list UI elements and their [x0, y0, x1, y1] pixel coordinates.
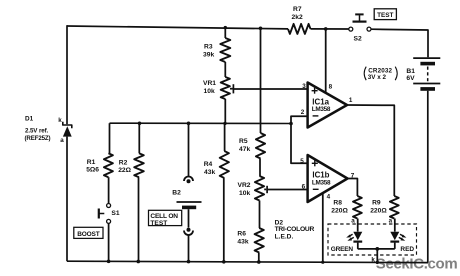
- wire R9 to red LED: [394, 219, 396, 232]
- node junction top rail / R3 column: [224, 26, 227, 29]
- svg-text:22Ω: 22Ω: [118, 167, 131, 174]
- resistor R8 220Ω body: [353, 196, 362, 219]
- svg-text:k: k: [371, 256, 375, 263]
- svg-text:TRI-COLOUR: TRI-COLOUR: [275, 226, 315, 233]
- wire R8 to green LED: [357, 219, 359, 232]
- svg-text:39k: 39k: [203, 52, 214, 59]
- svg-text:6V: 6V: [406, 75, 415, 82]
- node junction bottom rail / R6: [257, 260, 261, 264]
- svg-text:2.5V ref.: 2.5V ref.: [25, 128, 49, 135]
- battery clip top of B2: [184, 177, 193, 182]
- wire S1 to bottom rail: [108, 224, 110, 262]
- svg-text:R9: R9: [372, 199, 381, 206]
- wire IC1b pin4 to bottom rail: [322, 194, 324, 263]
- svg-text:4: 4: [327, 193, 331, 200]
- resistor R7 2k2 body: [288, 24, 311, 34]
- label CELL ON TEST box: [149, 210, 182, 225]
- svg-text:(REF25Z): (REF25Z): [25, 135, 51, 142]
- LED D2 green element: [353, 232, 362, 240]
- svg-text:R5: R5: [239, 138, 248, 145]
- svg-text:a: a: [60, 137, 64, 144]
- node junction bottom rail / pin4: [321, 261, 324, 264]
- svg-text:R7: R7: [293, 6, 302, 13]
- trimpot VR2 10k body: [255, 176, 264, 201]
- svg-text:TEST: TEST: [150, 220, 167, 227]
- battery clip bottom of B2: [187, 228, 191, 232]
- svg-text:LM358: LM358: [312, 179, 331, 186]
- svg-text:1: 1: [349, 97, 353, 104]
- wire right rail B1 bottom to bottom rail: [427, 91, 429, 263]
- svg-text:LM358: LM358: [312, 106, 331, 113]
- diode D1 2.5V reference REF25Z: [63, 122, 72, 128]
- svg-text:S2: S2: [354, 35, 362, 42]
- svg-text:10k: 10k: [204, 88, 215, 95]
- wire IC1a output pin1: [347, 105, 394, 196]
- wire mid-rail node to IC1a pin2 and IC1b pin5: [291, 116, 307, 163]
- svg-text:VR2: VR2: [238, 182, 251, 189]
- wire R2 to bottom rail: [138, 177, 140, 261]
- battery B1 6V (2x CR2032): [413, 57, 440, 59]
- light arrows red LED: [400, 234, 404, 236]
- wire mid rail to B2 clip: [188, 123, 190, 177]
- node junction mid rail / B2: [187, 122, 191, 126]
- svg-text:10k: 10k: [239, 190, 250, 197]
- svg-text:2: 2: [301, 109, 305, 116]
- battery B2 cell on test: [177, 201, 202, 203]
- svg-text:8: 8: [329, 84, 333, 91]
- svg-text:5Ω6: 5Ω6: [86, 167, 99, 174]
- wire mid rail (reference node): [110, 122, 292, 124]
- LED D2 red element: [390, 232, 399, 240]
- svg-text:L.E.D.: L.E.D.: [275, 233, 294, 240]
- node junction LED cathodes: [375, 247, 379, 251]
- light arrows green LED: [349, 234, 353, 236]
- node junction bottom rail / S1: [107, 260, 111, 264]
- svg-text:2k2: 2k2: [292, 14, 303, 21]
- wire mid rail to R4: [224, 123, 226, 151]
- svg-text:D1: D1: [25, 116, 34, 123]
- svg-text:BOOST: BOOST: [77, 231, 100, 238]
- svg-text:R6: R6: [237, 231, 246, 238]
- svg-text:220Ω: 220Ω: [331, 207, 348, 214]
- wire top rail left segment (V+ rail): [67, 26, 288, 29]
- node junction top rail / IC1a pin8: [324, 27, 328, 31]
- svg-text:3: 3: [302, 83, 306, 90]
- resistor R5 47k body: [256, 133, 265, 159]
- wire IC1a pin8 from top rail: [325, 29, 327, 93]
- svg-text:RED: RED: [400, 246, 414, 253]
- wire R1 to S1: [108, 177, 110, 203]
- wire left rail (above D1): [66, 25, 68, 124]
- op-amp IC1b LM358: [308, 155, 348, 202]
- wire left rail (below D1): [66, 137, 68, 262]
- node junction top rail / R5 column: [259, 27, 263, 31]
- wire top rail from S2 to right corner: [371, 29, 428, 57]
- svg-text:3V x 2: 3V x 2: [368, 74, 387, 81]
- switch S1 push-button: [107, 204, 111, 208]
- wire R6 to bottom rail: [258, 253, 260, 262]
- svg-text:SeekIC.com: SeekIC.com: [376, 256, 458, 273]
- node junction bottom rail / R4: [222, 260, 226, 264]
- svg-text:47k: 47k: [239, 146, 250, 153]
- resistor R1 5Ω6 body: [104, 153, 113, 177]
- wire top rail to R5 (crosses mid rail): [260, 28, 262, 133]
- wire R5 to VR2: [259, 159, 261, 177]
- switch S2 push-button: [349, 27, 353, 31]
- label BOOST box: [74, 227, 103, 238]
- svg-text:43k: 43k: [204, 169, 215, 176]
- resistor R6 43k body: [255, 228, 264, 253]
- svg-text:220Ω: 220Ω: [370, 207, 387, 214]
- svg-text:5: 5: [300, 158, 304, 165]
- wire R4 to bottom rail: [223, 178, 225, 262]
- svg-text:R3: R3: [204, 44, 213, 51]
- svg-text:B2: B2: [172, 189, 181, 196]
- wire mid rail to R2: [138, 123, 140, 153]
- svg-text:k: k: [58, 117, 62, 124]
- wire cathode node to bottom rail: [376, 249, 378, 263]
- svg-text:S1: S1: [111, 210, 119, 217]
- label TEST box: [374, 9, 396, 20]
- node junction bottom rail / R2: [137, 260, 141, 264]
- resistor R3 39k body: [220, 38, 230, 62]
- svg-text:R2: R2: [119, 159, 128, 166]
- wiper of VR2: [264, 188, 266, 190]
- wire LED cathodes join: [358, 248, 395, 250]
- wire top rail from R7 to S2: [311, 28, 349, 30]
- wire bottom rail: [67, 261, 428, 262]
- svg-text:7: 7: [351, 172, 355, 179]
- wire VR2 to R6: [259, 201, 261, 229]
- wire VR1 bottom to mid rail: [224, 99, 226, 123]
- svg-text:IC1b: IC1b: [312, 170, 329, 179]
- wiper of VR1: [230, 88, 233, 90]
- wire R3 to VR1: [224, 62, 226, 77]
- svg-text:R4: R4: [204, 161, 213, 168]
- wire IC1b output pin7: [348, 179, 358, 197]
- wire top rail to R3: [224, 28, 226, 38]
- node junction mid rail / VR1-R4: [223, 122, 226, 125]
- node junction bottom rail / D2 cathode: [376, 261, 379, 264]
- svg-text:43k: 43k: [237, 239, 248, 246]
- wire mid rail down to R1: [109, 123, 111, 153]
- wire VR1 wiper to IC1a pin3: [233, 88, 307, 90]
- svg-text:6: 6: [302, 183, 306, 190]
- svg-text:R1: R1: [87, 159, 96, 166]
- svg-text:B1: B1: [406, 68, 415, 75]
- svg-text:VR1: VR1: [203, 80, 216, 87]
- svg-text:TEST: TEST: [377, 12, 393, 19]
- resistor R4 43k body: [220, 151, 229, 178]
- svg-text:R8: R8: [333, 199, 342, 206]
- wire VR2 wiper to IC1b pin6: [267, 189, 307, 191]
- node junction mid rail / R2: [138, 122, 142, 126]
- node junction bottom rail / B2: [187, 260, 191, 264]
- op-amp IC1a LM358: [308, 83, 347, 128]
- resistor R9 220Ω body: [390, 196, 399, 219]
- dashed outline D2 tri-colour LED package: [328, 224, 417, 255]
- svg-text:GREEN: GREEN: [331, 246, 354, 253]
- trimpot VR1 10k body: [221, 77, 230, 99]
- resistor R2 22Ω body: [134, 153, 144, 177]
- node junction mid rail / IC1a pin2 net: [289, 122, 293, 126]
